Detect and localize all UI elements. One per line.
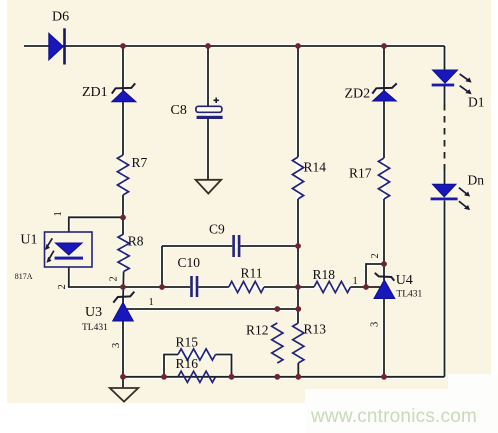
wire R15 R16 parallel loop bbox=[164, 355, 232, 377]
resistor R7 bbox=[117, 155, 147, 195]
resistor R17 bbox=[349, 158, 390, 199]
svg-text:www.cntronics.com: www.cntronics.com bbox=[310, 406, 477, 427]
node R7 R8 U1 pin1 bbox=[120, 215, 126, 221]
svg-text:Dn: Dn bbox=[468, 173, 485, 188]
wire ZD1 column bbox=[122, 46, 124, 155]
svg-text:ZD2: ZD2 bbox=[345, 87, 371, 102]
resistor R12 bbox=[246, 323, 283, 364]
shunt regulator U3 TL431 bbox=[82, 276, 154, 348]
wire dashed LED string segment bbox=[444, 104, 446, 170]
node top rail at ZD2 bbox=[381, 43, 387, 49]
svg-text:U4: U4 bbox=[396, 273, 413, 288]
svg-text:817A: 817A bbox=[15, 272, 33, 281]
node bottom rail U4 bbox=[381, 374, 387, 380]
ground (below C8) bbox=[196, 180, 222, 194]
svg-text:D6: D6 bbox=[52, 10, 69, 25]
node bottom rail R15 left bbox=[161, 374, 167, 380]
wire halos bbox=[24, 46, 445, 388]
wire C9 branch bbox=[162, 246, 298, 287]
node bottom rail R12 bbox=[274, 374, 280, 380]
svg-text:R17: R17 bbox=[349, 166, 372, 181]
shunt regulator U4 TL431 bbox=[353, 253, 423, 327]
node C9 stub on mid rail bbox=[159, 284, 165, 290]
node R11 R18 bbox=[295, 284, 301, 290]
svg-text:R8: R8 bbox=[128, 234, 144, 249]
svg-text:2: 2 bbox=[109, 276, 120, 281]
resistor R15 bbox=[176, 335, 216, 361]
svg-text:R7: R7 bbox=[132, 155, 148, 170]
wire right LED column upper bbox=[444, 46, 446, 104]
svg-text:TL431: TL431 bbox=[82, 323, 108, 333]
svg-text:ZD1: ZD1 bbox=[82, 85, 108, 100]
LED Dn bbox=[431, 173, 485, 211]
wire U1 pin2 mid rail bbox=[69, 267, 366, 287]
zener ZD2 bbox=[345, 83, 397, 101]
svg-text:3: 3 bbox=[111, 343, 122, 348]
svg-text:R13: R13 bbox=[304, 322, 327, 337]
node top rail at ZD1 bbox=[120, 43, 126, 49]
svg-text:U1: U1 bbox=[20, 233, 37, 248]
node top rail at R14 bbox=[295, 43, 301, 49]
svg-text:D1: D1 bbox=[468, 95, 485, 110]
svg-text:R12: R12 bbox=[246, 323, 269, 338]
capacitor C10 bbox=[178, 255, 201, 297]
svg-text:C10: C10 bbox=[178, 255, 201, 270]
resistor R11 bbox=[229, 266, 264, 293]
svg-text:R15: R15 bbox=[176, 335, 199, 350]
node bottom rail R15 right bbox=[229, 374, 235, 380]
wire U3 anode to ground bbox=[122, 321, 124, 388]
resistor R18 bbox=[313, 267, 351, 293]
wire right LED column lower bbox=[444, 170, 446, 377]
optocoupler U1 bbox=[15, 211, 92, 289]
wire U1 pin1 to node bbox=[69, 217, 123, 232]
node R8 U3 mid rail bbox=[120, 284, 126, 290]
node bottom rail ground bbox=[120, 374, 126, 380]
svg-text:1: 1 bbox=[149, 297, 154, 308]
capacitor C8 bbox=[171, 98, 223, 119]
svg-text:2: 2 bbox=[57, 284, 68, 289]
node bottom rail R13 bbox=[295, 374, 301, 380]
wire U4 ref loop bbox=[366, 264, 384, 287]
capacitor C9 bbox=[209, 222, 240, 258]
svg-text:2: 2 bbox=[370, 253, 381, 258]
node R18 U4 ref bbox=[363, 284, 369, 290]
resistor R16 bbox=[176, 356, 216, 382]
wire bottom rail bbox=[123, 376, 445, 378]
LED D1 bbox=[432, 70, 485, 110]
svg-text:R18: R18 bbox=[313, 267, 336, 282]
node top rail at C8 bbox=[205, 43, 211, 49]
resistor R8 bbox=[118, 234, 144, 272]
svg-text:R16: R16 bbox=[176, 356, 199, 371]
svg-text:U3: U3 bbox=[85, 305, 102, 320]
ground (below U3) bbox=[110, 388, 138, 402]
wire R14 column bbox=[297, 46, 299, 377]
svg-text:3: 3 bbox=[370, 322, 381, 327]
node U4 cathode ref bbox=[381, 261, 387, 267]
wire ZD2 R17 U4 column bbox=[383, 46, 385, 377]
node ref line R13 bbox=[295, 306, 301, 312]
diode D6 bbox=[49, 10, 69, 65]
resistor R14 bbox=[292, 157, 326, 199]
node ref line R12 bbox=[274, 306, 280, 312]
svg-text:TL431: TL431 bbox=[396, 290, 422, 300]
wire U3 ref line bbox=[127, 308, 298, 310]
wire top rail bbox=[24, 45, 445, 47]
svg-text:R14: R14 bbox=[304, 160, 327, 175]
zener ZD1 bbox=[82, 83, 136, 101]
wire R7 to R8 segment bbox=[122, 195, 124, 234]
wire C8 column bbox=[207, 46, 209, 180]
svg-text:1: 1 bbox=[353, 276, 358, 287]
svg-text:R11: R11 bbox=[241, 266, 263, 281]
resistor R13 bbox=[293, 322, 327, 364]
svg-text:C8: C8 bbox=[171, 103, 187, 118]
node C9 right on R14 column bbox=[295, 243, 301, 249]
svg-text:1: 1 bbox=[53, 211, 64, 216]
wire R8 to node segment bbox=[122, 272, 125, 304]
svg-text:C9: C9 bbox=[209, 222, 225, 237]
